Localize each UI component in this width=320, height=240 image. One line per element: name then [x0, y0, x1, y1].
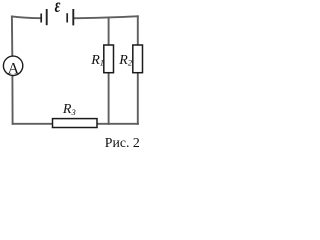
svg-text:Рис. 2: Рис. 2: [105, 135, 140, 150]
svg-text:A: A: [8, 61, 20, 78]
svg-text:ε: ε: [55, 0, 61, 17]
